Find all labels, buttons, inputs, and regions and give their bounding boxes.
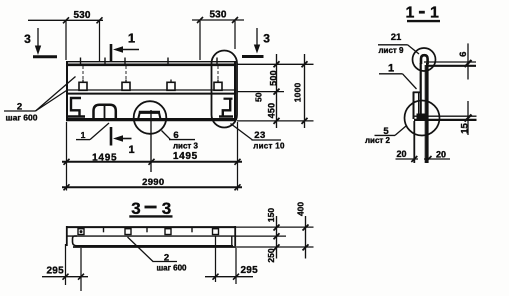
svg-text:530: 530 <box>210 9 227 20</box>
embed plate square 1 <box>79 82 87 90</box>
hidden dashed line square2 to top <box>125 66 127 80</box>
3-3 dim 295 left <box>65 244 67 285</box>
3-3 title underline <box>129 215 172 217</box>
svg-text:15: 15 <box>460 123 471 134</box>
panel elevation bottom edge <box>66 118 236 121</box>
svg-text:295: 295 <box>47 266 65 277</box>
extension line left <box>66 122 68 191</box>
Z profile left of rod <box>413 91 421 93</box>
3-3 right dim ext lines <box>236 226 314 228</box>
right dim chain ext bottom <box>237 120 314 122</box>
3-3 tick c <box>191 227 193 233</box>
dim 15 (mid right) <box>467 101 469 135</box>
right dim chain ext top <box>237 63 314 65</box>
section mark 1 top: arrow <box>120 49 139 51</box>
weld joint blob <box>417 114 429 122</box>
3-3 square 1 <box>78 229 84 235</box>
dim 530 left: line <box>28 19 103 21</box>
section mark 3 right: cut bar <box>242 55 264 58</box>
embed plate square 3 <box>167 82 175 90</box>
3-3 title dash <box>145 206 157 209</box>
svg-text:3: 3 <box>263 32 270 46</box>
centre extension line through panel <box>150 110 152 172</box>
dim 1495+1495: line <box>62 161 242 163</box>
svg-text:150: 150 <box>266 208 276 222</box>
3-3 leader 2 шаг 600 <box>128 237 154 262</box>
svg-text:лист 3: лист 3 <box>173 142 199 151</box>
svg-text:1495: 1495 <box>173 151 198 162</box>
dim 20 left <box>396 158 419 160</box>
leader 23 лист 10 <box>231 124 253 141</box>
top plate (section) <box>424 61 476 63</box>
3-3 dim 295 right <box>215 236 217 282</box>
3-3 top bar <box>66 226 236 228</box>
section mark 3 left: arrow <box>37 28 39 48</box>
3-3 square 2 <box>125 229 131 235</box>
svg-text:21: 21 <box>391 32 402 43</box>
dim 6 (top right) <box>467 43 469 79</box>
svg-text:1: 1 <box>81 130 86 140</box>
section mark 3 right: arrow <box>256 28 258 48</box>
svg-text:1: 1 <box>406 5 415 22</box>
hidden dashed line square1 to top <box>82 66 84 80</box>
panel right edge <box>234 61 236 121</box>
anchor tick on top edge x217 <box>216 58 218 67</box>
panel elevation middle thin line <box>66 89 236 91</box>
section mark 1 top: bar <box>110 44 113 62</box>
channel profile left (cut) <box>71 98 81 116</box>
svg-text:450: 450 <box>267 103 277 119</box>
svg-text:лист 2: лист 2 <box>365 136 391 145</box>
svg-text:1: 1 <box>388 63 394 75</box>
svg-text:шаг 600: шаг 600 <box>6 112 38 122</box>
leader 21 лист 9 <box>378 44 408 46</box>
rib hat profile 2 <box>139 111 160 114</box>
svg-text:2: 2 <box>17 102 22 113</box>
embed plate square 4 <box>214 82 222 90</box>
svg-text:2990: 2990 <box>142 177 164 188</box>
leader 1 (bottom left) <box>76 139 90 141</box>
detail circle callout (hat 2) <box>134 101 167 134</box>
svg-text:50: 50 <box>254 92 264 102</box>
right dim chain ext mid <box>237 91 284 93</box>
anchor tick on top edge x105 <box>104 58 106 67</box>
channel profile right in stadium <box>224 98 233 100</box>
leader 5 лист 2 <box>375 134 396 136</box>
svg-text:1: 1 <box>128 144 134 156</box>
svg-text:шаг 600: шаг 600 <box>156 264 187 273</box>
extension line right <box>237 122 239 191</box>
svg-text:20: 20 <box>396 149 406 159</box>
svg-text:2: 2 <box>164 253 169 264</box>
svg-text:лист 10: лист 10 <box>253 142 285 151</box>
section mark 1 bottom: arrow <box>120 138 132 140</box>
embed plate square 2 <box>122 82 130 90</box>
section mark 3 left: cut bar <box>33 55 57 58</box>
detail circle top (21 лист 9) <box>413 48 436 71</box>
panel elevation middle thick line <box>66 93 236 95</box>
rib hat profile 1 <box>94 105 116 120</box>
svg-text:295: 295 <box>241 265 259 276</box>
stadium detail callout <box>212 51 238 128</box>
section mark 1 bottom: bar <box>110 127 113 146</box>
outer vertical dim line 1000 <box>304 54 306 128</box>
3-3 tick a <box>103 227 105 233</box>
svg-text:400: 400 <box>296 202 306 216</box>
panel elevation top thick line <box>66 64 236 67</box>
panel elevation top thin line <box>66 61 236 63</box>
svg-text:500: 500 <box>269 70 279 86</box>
1-1 title underline <box>407 20 440 22</box>
leader 1 <box>379 73 403 75</box>
3-3 square 3 <box>165 229 171 235</box>
dim 530 right: line <box>192 19 244 21</box>
panel left edge <box>66 61 68 121</box>
3-3 inner dim line 150/250 <box>276 216 278 259</box>
svg-text:1: 1 <box>430 5 439 22</box>
svg-text:6: 6 <box>458 52 469 57</box>
anchor tick on top edge x125 <box>124 58 126 67</box>
svg-text:1: 1 <box>128 31 135 46</box>
leader 6 лист 3 <box>162 131 171 140</box>
bottom plate (section) <box>414 115 477 117</box>
3-3 tick b <box>146 227 148 233</box>
1-1 title dash <box>419 11 425 14</box>
svg-text:3: 3 <box>162 199 171 218</box>
svg-text:лист 9: лист 9 <box>378 46 404 55</box>
anchor rod with hook <box>421 55 428 64</box>
svg-text:3: 3 <box>24 32 31 46</box>
svg-text:530: 530 <box>74 10 91 21</box>
svg-text:250: 250 <box>266 248 276 262</box>
inner vertical dim line 500/50/450 <box>276 54 278 128</box>
3-3 bottom bar <box>73 236 234 246</box>
svg-text:1495: 1495 <box>92 153 117 164</box>
anchor tick on top edge x168 <box>167 58 169 67</box>
svg-text:6: 6 <box>173 130 178 141</box>
detail circle bottom (5 лист 2) <box>405 101 440 136</box>
anchor tick on top edge x80 <box>80 58 82 67</box>
svg-text:3: 3 <box>131 199 140 218</box>
svg-text:20: 20 <box>436 150 446 160</box>
leader 2 шаг 600 <box>4 110 36 112</box>
svg-text:1000: 1000 <box>292 82 302 102</box>
3-3 square 4 <box>213 229 219 235</box>
hidden dashed line square4 to top <box>217 66 219 80</box>
svg-text:23: 23 <box>254 130 266 141</box>
3-3 outer dim line 400 <box>305 216 307 259</box>
dim 2990: line <box>62 186 242 188</box>
dim 20 right <box>424 158 450 160</box>
